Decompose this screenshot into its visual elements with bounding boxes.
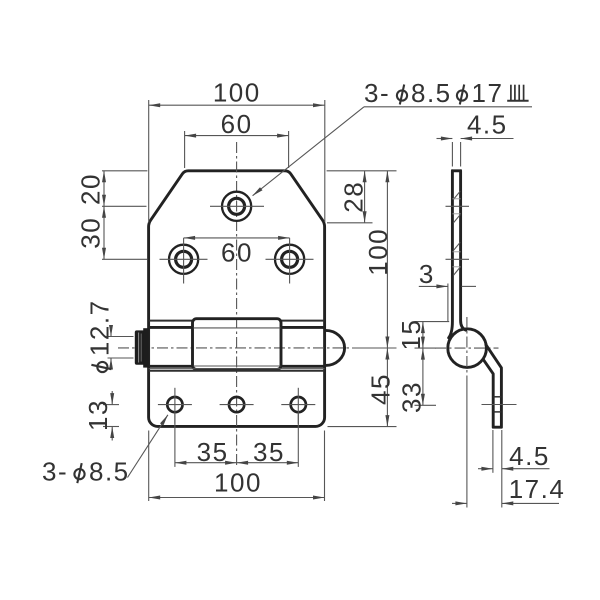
front view: bottom-left hole crosshair [158, 404, 192, 406]
svg-text:13: 13 [83, 399, 113, 431]
front view: mid-right countersunk hole outer circle [275, 245, 304, 274]
side view: lower leg section outline [484, 345, 502, 428]
front view: barrel right sleeve bottom edge [281, 365, 325, 368]
dimension: top 100 extension lines [148, 100, 150, 223]
front view: mid-left countersunk hole inner circle [176, 251, 192, 267]
dimension: phi12.7 extension lines [108, 336, 134, 338]
front view: vertical center line [236, 142, 238, 467]
front view: mid-left hole vertical center line [183, 238, 185, 284]
front view: barrel right sleeve top edge [281, 326, 325, 329]
dimension: left 13 text [83, 399, 113, 431]
svg-text:30: 30 [76, 217, 106, 249]
dimension: right 100 text [363, 228, 393, 276]
front view: hinge pin dome head (right) [326, 330, 345, 365]
side view: plate section left face [449, 171, 453, 338]
dimension: right 28 text [339, 181, 369, 213]
front view: hinge leaf outline [149, 171, 325, 427]
dimension: left 20/30 extension lines [102, 170, 147, 172]
front view: barrel bore line top through knuckle [194, 327, 281, 329]
dimension: phi12.7 text [85, 299, 115, 372]
dimension: side 33 text [396, 381, 426, 413]
front view: upper plate bottom edge right segment [281, 320, 325, 322]
label: 3-phi8.5 leader line (bottom) [128, 415, 168, 478]
side view: knuckle barrel circle [448, 329, 487, 368]
svg-text:28: 28 [339, 181, 369, 213]
dimension: side 15 extension line [415, 321, 450, 323]
dimension: right 100 dimension line [386, 171, 388, 348]
front view: barrel left sleeve top edge [149, 326, 193, 329]
side view: upper hole edge lines [452, 198, 460, 200]
dimension: left 20/30 dimension line [103, 171, 105, 259]
front view: barrel horizontal center line [118, 347, 352, 349]
dimension: side 33 extension lines [415, 347, 437, 349]
side view: plate section right face [461, 171, 466, 330]
dimension: side 17.4 dimension line with outside arrows [452, 502, 467, 504]
dimension: top 60 extension lines [184, 131, 186, 168]
svg-text:100: 100 [213, 78, 261, 108]
front view: bottom-center small hole [229, 397, 244, 412]
svg-text:4.5: 4.5 [509, 441, 550, 471]
front view: mid-right countersunk hole inner circle [282, 251, 298, 267]
dimension: side 3 dimension line [419, 285, 448, 287]
svg-text:15: 15 [396, 319, 426, 351]
dimension: phi12.7 dimension line with outside arrows [110, 325, 112, 337]
dimension: side 33 dimension line [422, 348, 424, 405]
dimension: right 45 text [366, 373, 396, 405]
front view: mid-right hole vertical center line [289, 238, 291, 284]
svg-text:3-: 3- [364, 78, 390, 108]
front view: bottom-right hole crosshair [281, 404, 315, 406]
label: 3-phi8.5 phi17 countersink leader line [364, 106, 532, 108]
dimension: bottom 35/35 extension lines [174, 414, 176, 467]
svg-text:60: 60 [221, 109, 253, 139]
side view: section hatching slashes [453, 191, 460, 199]
dimension: mid 60 dimension line between hole centers [184, 237, 290, 239]
front view: top countersunk hole inner circle [229, 198, 245, 214]
dimension: left 13 dimension line with outside arrows [111, 391, 113, 405]
svg-text:3-: 3- [42, 456, 68, 486]
label: countersink (sara) symbol [507, 85, 528, 101]
svg-text:3: 3 [419, 259, 435, 289]
svg-text:12.7: 12.7 [85, 299, 115, 356]
front view: center knuckle [193, 319, 282, 370]
svg-text:45: 45 [366, 373, 396, 405]
dimension: side 15 text [396, 319, 426, 351]
dimension: side 3 extension line [447, 284, 449, 322]
dimension: side 4.5 top dimension line with outside arrows [437, 138, 453, 140]
side view: barrel circle horizontal center line [435, 347, 499, 349]
dimension: side bottom 4.5 extension lines [492, 430, 494, 473]
svg-text:33: 33 [396, 381, 426, 413]
front view: mid-left countersunk hole outer circle [169, 245, 198, 274]
dimension: left 30 text [76, 217, 106, 249]
svg-text:8.5: 8.5 [89, 456, 130, 486]
dimension: bottom 100 extension lines [148, 431, 150, 502]
svg-text:8.5: 8.5 [411, 78, 452, 108]
side view: upper hole center ticks [446, 205, 470, 207]
side view: leg hole center tick [482, 404, 517, 406]
front view: top hole horizontal center line [210, 205, 264, 207]
svg-text:100: 100 [363, 228, 393, 276]
dimension: side bottom 4.5 dimension line with outside arrows [478, 468, 493, 470]
dimension: bottom 100 dimension line [149, 497, 325, 499]
side view: barrel circle vertical center line [466, 317, 468, 386]
front view: barrel left sleeve bottom edge [149, 365, 193, 368]
front view: bottom-center hole crosshair [220, 404, 254, 406]
dimension: side 15 dimension line [422, 322, 424, 349]
front view: bottom-left small hole [167, 397, 182, 412]
dimension: right 28 extension line [327, 222, 373, 224]
svg-text:20: 20 [76, 173, 106, 205]
dimension: right 100/45 extension lines [327, 170, 397, 172]
dimension: bottom 35/35 dimension line [175, 462, 298, 464]
front view: upper plate bottom edge left segment [149, 320, 193, 322]
dimension: right 28 dimension line [364, 171, 366, 223]
dimension: left 13 extension lines [103, 404, 119, 406]
svg-text:17.4: 17.4 [509, 474, 566, 504]
front view: flange bend tangent line [149, 368, 325, 370]
svg-text:4.5: 4.5 [467, 109, 508, 139]
front view: mid-left hole horizontal center line [160, 258, 208, 260]
svg-text:35: 35 [253, 437, 285, 467]
side view: plate section top edge [451, 169, 462, 172]
dimension: side 4.5 top extension lines [451, 142, 453, 167]
front view: mid-right hole horizontal center line [266, 258, 314, 260]
dimension: top 60 dimension line [185, 135, 289, 137]
front view: bottom flange top edge [149, 370, 325, 372]
svg-text:100: 100 [214, 468, 262, 498]
svg-text:35: 35 [197, 437, 229, 467]
dimension: top 100 dimension line [149, 104, 325, 106]
front view: barrel bore line bottom through knuckle [194, 365, 281, 367]
side view: leg hole edge lines [493, 396, 501, 398]
svg-text:60: 60 [221, 237, 253, 267]
dimension: right 45 dimension line [386, 348, 388, 427]
svg-text:17: 17 [472, 78, 504, 108]
dimension: side 17.4 extension line [466, 386, 468, 508]
front view: top countersunk hole outer circle [222, 192, 251, 221]
dimension: left 20 text [76, 173, 106, 205]
front view: hinge pin head (left, knurled) [135, 330, 144, 364]
front view: bottom-right small hole [291, 397, 306, 412]
